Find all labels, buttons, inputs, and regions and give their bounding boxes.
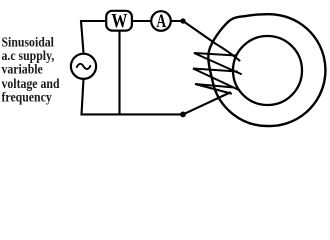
svg-text:A: A (156, 11, 166, 32)
ac source sine symbol (77, 64, 91, 69)
wire: wattmeter voltage tap down to bottom rail (118, 32, 120, 115)
label: supply description text (2, 35, 72, 104)
coil winding on core (193, 53, 241, 94)
ammeter A circle (151, 11, 171, 31)
ac source G1 (71, 54, 96, 79)
wattmeter W box (106, 11, 132, 31)
svg-text:W: W (111, 10, 127, 32)
toroid core outer circle (208, 14, 325, 126)
wire: top lead into winding (183, 21, 240, 61)
junction node top (180, 18, 185, 23)
toroid core inner circle (233, 36, 302, 105)
junction node bottom (180, 112, 186, 118)
wire: A to top junction (171, 20, 183, 22)
wire: bottom lead from winding to bottom junction (183, 93, 230, 115)
wire: W to A (133, 20, 150, 22)
wire: top left vertical from source to top rail (81, 21, 105, 53)
wire: bottom left vertical from source to bottom rail (82, 79, 184, 114)
